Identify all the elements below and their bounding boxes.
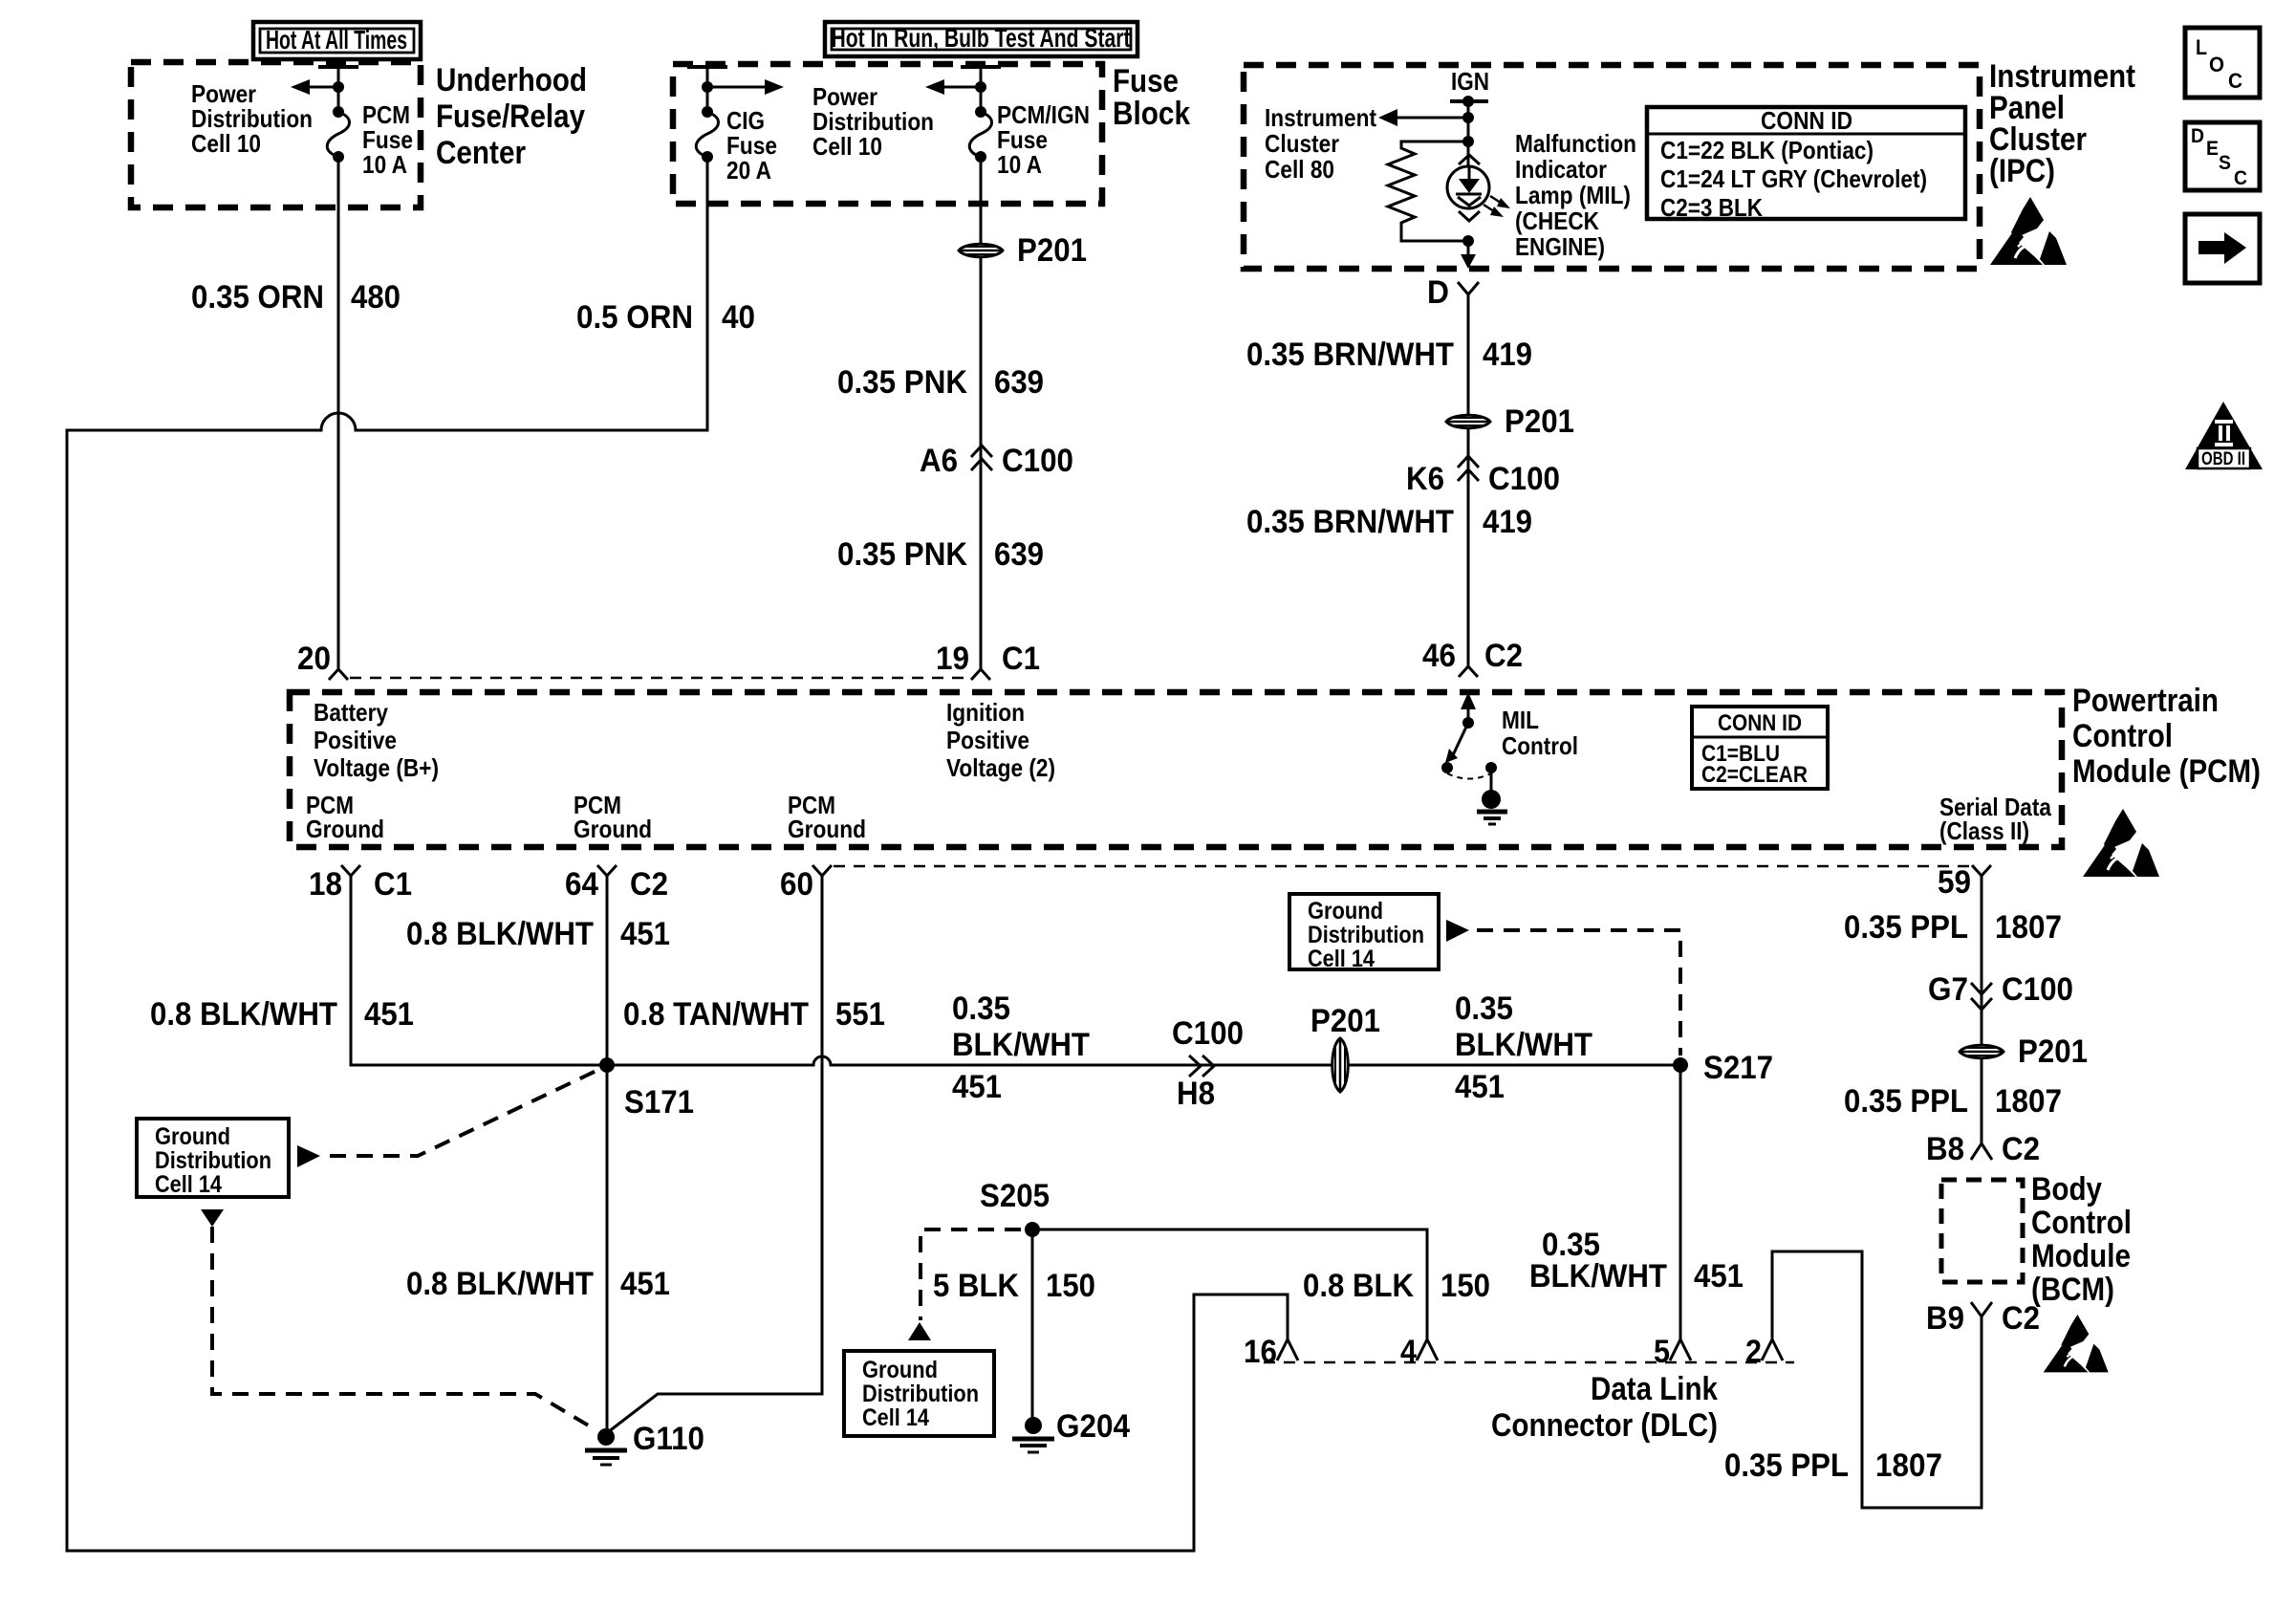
svg-text:H8: H8	[1177, 1076, 1215, 1112]
svg-text:IGN: IGN	[1451, 67, 1489, 96]
label: 0.35 ORN 480	[191, 279, 401, 315]
node: splice S205	[1025, 1222, 1040, 1237]
label: PCM Ground (pin 60)	[788, 791, 866, 843]
CONN ID table (IPC)	[1647, 106, 1965, 222]
label: Power Distribution Cell 10 (underhood)	[191, 79, 313, 158]
ESD symbol (BCM)	[2044, 1315, 2109, 1372]
svg-text:0.5 ORN: 0.5 ORN	[576, 299, 693, 336]
wire: arrow to Instrument Cluster Cell 80	[1397, 117, 1468, 120]
svg-text:451: 451	[620, 1266, 670, 1302]
svg-text:5 BLK: 5 BLK	[933, 1268, 1019, 1304]
pin 46 (PCM C2)	[1422, 638, 1523, 677]
svg-text:Ground: Ground	[1308, 898, 1383, 925]
connector line C2 (pins 60-59, thin dashed)	[834, 865, 1970, 868]
resistor (in parallel with MIL lamp)	[1388, 141, 1468, 241]
wire: arrow to Power Distribution Cell 10 (underhood)	[310, 86, 338, 89]
svg-text:Voltage (2): Voltage (2)	[946, 753, 1055, 782]
svg-text:A6: A6	[920, 443, 958, 479]
svg-text:OBD II: OBD II	[2201, 449, 2245, 469]
svg-text:16: 16	[1244, 1334, 1277, 1370]
svg-text:C2=CLEAR: C2=CLEAR	[1701, 762, 1808, 788]
svg-text:Underhood: Underhood	[436, 62, 587, 98]
svg-text:Voltage (B+): Voltage (B+)	[314, 753, 439, 782]
label: Powertrain Control Module (PCM)	[2072, 683, 2261, 790]
wire: 0.35 BRN/WHT 419 from IPC D to PCM pin 46	[1467, 294, 1470, 666]
ESD symbol (PCM)	[2083, 809, 2159, 877]
svg-text:Control: Control	[1502, 731, 1578, 760]
svg-text:Positive: Positive	[946, 726, 1029, 754]
svg-text:Distribution: Distribution	[155, 1147, 271, 1174]
svg-text:G110: G110	[633, 1421, 704, 1457]
label: 0.35 PNK 639 (lower)	[837, 536, 1044, 573]
svg-text:K6: K6	[1406, 461, 1444, 497]
svg-text:0.35 BRN/WHT: 0.35 BRN/WHT	[1246, 504, 1454, 540]
svg-text:Module: Module	[2031, 1238, 2131, 1274]
label: Data Link Connector (DLC)	[1491, 1371, 1718, 1444]
wire: 0.35 PNK 639 from PCM/IGN fuse to PCM pin 19	[980, 157, 983, 669]
node: splice S171	[599, 1057, 615, 1073]
connector P201 (on ground run)	[1310, 1003, 1380, 1092]
svg-text:C100: C100	[2002, 971, 2073, 1008]
svg-text:MIL: MIL	[1502, 706, 1539, 734]
label: CIG Fuse 20 A	[726, 106, 777, 185]
svg-text:BLK/WHT: BLK/WHT	[952, 1027, 1090, 1063]
wire: IGN feed bar	[1450, 99, 1488, 103]
label: MIL Control	[1502, 706, 1578, 760]
svg-text:BLK/WHT: BLK/WHT	[1455, 1027, 1592, 1063]
svg-text:D: D	[2191, 125, 2204, 147]
wire: top of PCM fuse	[337, 67, 340, 112]
wire: arrow to Power Distribution Cell 10 (left pointing)	[944, 86, 981, 89]
label: 0.8 BLK 150	[1303, 1268, 1490, 1304]
svg-text:C100: C100	[1002, 443, 1073, 479]
svg-text:S217: S217	[1703, 1050, 1773, 1086]
svg-text:Ground: Ground	[155, 1123, 230, 1150]
wire: arrow down out of IPC	[1467, 241, 1470, 256]
pin 19 (PCM C1)	[936, 641, 1040, 680]
svg-text:Cluster: Cluster	[1265, 129, 1339, 158]
svg-text:C2=3 BLK: C2=3 BLK	[1660, 193, 1763, 222]
component box: Instrument Panel Cluster (IPC)	[1244, 65, 1980, 269]
label: Serial Data (Class II)	[1939, 793, 2051, 845]
node: splice S217	[1673, 1057, 1688, 1073]
svg-text:C2: C2	[630, 866, 668, 903]
label: 0.8 BLK/WHT 451 (S171 to G110)	[406, 1266, 670, 1302]
ESD symbol (IPC)	[1990, 197, 2067, 265]
svg-text:150: 150	[1046, 1268, 1095, 1304]
svg-text:1807: 1807	[1995, 1083, 2062, 1120]
svg-text:Positive: Positive	[314, 726, 397, 754]
svg-text:O: O	[2209, 53, 2224, 76]
svg-text:19: 19	[936, 641, 969, 677]
svg-text:S: S	[2219, 152, 2231, 174]
pin 20 (PCM C1)	[297, 641, 348, 680]
fuse F2: CIG Fuse element	[702, 106, 713, 118]
svg-text:Module (PCM): Module (PCM)	[2072, 753, 2261, 790]
label: PCM Ground (pin 18)	[306, 791, 384, 843]
label: 0.8 BLK/WHT 451 (pin 18 wire)	[150, 996, 414, 1033]
wire: S205 right to DLC pin 4	[1032, 1229, 1427, 1339]
svg-text:Ground: Ground	[862, 1357, 938, 1383]
svg-text:2: 2	[1745, 1334, 1762, 1370]
svg-text:L: L	[2196, 35, 2207, 59]
svg-text:B9: B9	[1926, 1300, 1964, 1337]
svg-text:Cell 10: Cell 10	[191, 129, 261, 158]
svg-text:Malfunction: Malfunction	[1515, 129, 1636, 158]
svg-text:639: 639	[994, 536, 1044, 573]
node: lamp bottom junction dot	[1462, 235, 1474, 247]
svg-text:Fuse/Relay: Fuse/Relay	[436, 98, 585, 135]
svg-text:C: C	[2234, 167, 2247, 189]
label: 0.35 PNK 639 (upper)	[837, 364, 1044, 401]
svg-text:C2: C2	[2002, 1131, 2040, 1167]
svg-text:CONN ID: CONN ID	[1718, 710, 1802, 736]
svg-text:0.35 PPL: 0.35 PPL	[1844, 1083, 1968, 1120]
svg-text:C2: C2	[2002, 1300, 2040, 1337]
MIL lamp (CHECK ENGINE)	[1447, 155, 1510, 221]
svg-text:419: 419	[1483, 504, 1532, 540]
svg-text:Hot At All Times: Hot At All Times	[266, 25, 407, 54]
svg-text:(IPC): (IPC)	[1989, 153, 2055, 189]
svg-text:Indicator: Indicator	[1515, 155, 1607, 184]
svg-text:419: 419	[1483, 337, 1532, 373]
label: Ground Distribution Cell 14 (left box)	[137, 1119, 320, 1198]
svg-text:D: D	[1427, 274, 1449, 311]
pin 2 (DLC)	[1745, 1334, 1783, 1370]
component box: Body Control Module (BCM)	[1941, 1180, 2023, 1282]
label: Ground Distribution Cell 14 (upper middle box)	[1289, 894, 1469, 972]
wire: top of CIG fuse	[706, 67, 709, 112]
icon: arrow box	[2185, 214, 2260, 283]
component box: Powertrain Control Module (PCM)	[290, 692, 2062, 847]
wire: 0.35 PPL 1807 from PCM pin 59 down to BCM B8	[1981, 876, 1983, 1143]
label: Body Control Module (BCM)	[2031, 1171, 2132, 1308]
icon: DESC box	[2185, 122, 2260, 190]
svg-text:BLK/WHT: BLK/WHT	[1529, 1258, 1667, 1295]
svg-text:Connector (DLC): Connector (DLC)	[1491, 1407, 1718, 1444]
svg-text:Center: Center	[436, 135, 526, 171]
svg-text:0.35 ORN: 0.35 ORN	[191, 279, 324, 315]
connector P201 (PNK wire)	[959, 232, 1087, 269]
pin 16 (DLC)	[1244, 1334, 1298, 1370]
svg-text:5: 5	[1654, 1334, 1670, 1370]
svg-text:Cell 14: Cell 14	[1308, 946, 1375, 972]
svg-text:Hot In Run, Bulb Test And Star: Hot In Run, Bulb Test And Start	[832, 23, 1131, 53]
label: 0.35 BRN/WHT 419 (lower)	[1246, 504, 1532, 540]
fuse F1: PCM Fuse element	[333, 106, 344, 118]
label: Fuse Block	[1113, 63, 1190, 132]
label: Malfunction Indicator Lamp (MIL) (CHECK ENGINE)	[1515, 129, 1636, 261]
svg-text:C2: C2	[1484, 638, 1523, 674]
svg-text:C100: C100	[1172, 1015, 1244, 1052]
svg-text:451: 451	[620, 916, 670, 952]
dashed leader: Ground Distribution Cell 14 down to G110	[201, 1209, 596, 1430]
label: Instrument Cluster Cell 80	[1265, 103, 1376, 184]
fuse F1: PCM Fuse 10 A (Underhood) terminal bar	[318, 65, 358, 69]
svg-text:(Class II): (Class II)	[1939, 816, 2029, 845]
svg-text:40: 40	[722, 299, 755, 336]
svg-text:0.35 PNK: 0.35 PNK	[837, 364, 967, 401]
pin 18 (PCM C1, bottom)	[309, 865, 412, 903]
label: PCM Fuse 10 A	[362, 100, 413, 179]
label: 0.35 PPL 1807 (upper)	[1844, 909, 2062, 946]
label: Battery Positive Voltage (B+)	[314, 698, 439, 782]
svg-text:0.35: 0.35	[952, 990, 1010, 1027]
svg-text:Cell 14: Cell 14	[862, 1404, 929, 1431]
svg-text:C1: C1	[374, 866, 412, 903]
connector P201 (BRN/WHT wire)	[1446, 403, 1574, 440]
pin B8 (BCM C2)	[1926, 1131, 2040, 1167]
ground G110	[585, 1421, 704, 1465]
svg-text:10 A: 10 A	[997, 150, 1042, 179]
svg-text:Control: Control	[2031, 1205, 2132, 1241]
svg-text:1807: 1807	[1875, 1447, 1942, 1484]
svg-text:64: 64	[565, 866, 598, 903]
label: PCM/IGN Fuse 10 A	[997, 100, 1090, 179]
label: Power Distribution Cell 10 (fuse block)	[812, 82, 934, 161]
svg-text:Instrument: Instrument	[1265, 103, 1376, 132]
label: Ground Distribution Cell 14 (lower box)	[844, 1322, 994, 1436]
pin 59 (PCM, bottom)	[1938, 864, 1991, 901]
label: Underhood Fuse/Relay Center	[436, 62, 587, 171]
wire: 0.5 ORN 40 from CIG fuse, left and down the page	[67, 157, 1288, 1551]
wire: 0.35 BLK/WHT 451 main ground run from S171 to S217	[607, 1056, 1680, 1065]
svg-text:C1: C1	[1002, 641, 1040, 677]
label: 0.35 PPL 1807 (lower)	[1724, 1447, 1942, 1484]
pin 60 (PCM, bottom)	[780, 865, 832, 903]
component box: Fuse Block	[673, 64, 1102, 204]
wire: IGN down to lamp	[1467, 101, 1470, 166]
label: 0.8 BLK/WHT 451 (pin 64 wire)	[406, 916, 670, 952]
svg-text:0.35 PPL: 0.35 PPL	[1724, 1447, 1849, 1484]
svg-text:S205: S205	[980, 1178, 1050, 1214]
icon: OBD II triangle	[2185, 402, 2263, 469]
dashed leader: Ground Distribution Cell 14 to S171	[330, 1069, 600, 1156]
svg-text:18: 18	[309, 866, 342, 903]
svg-text:Body: Body	[2031, 1171, 2102, 1207]
svg-text:0.8 BLK/WHT: 0.8 BLK/WHT	[150, 996, 337, 1033]
wire: 0.8 BLK/WHT 451 from pin 64 down to G110	[606, 876, 609, 1430]
svg-text:P201: P201	[1505, 403, 1574, 440]
CONN ID table (PCM)	[1692, 707, 1828, 789]
wire: 5 BLK 150 from S205 down to G204	[1031, 1229, 1034, 1419]
connector P201 (PPL wire)	[1960, 1033, 2088, 1070]
banner: Hot At All Times	[253, 22, 421, 59]
svg-text:C1=24 LT GRY (Chevrolet): C1=24 LT GRY (Chevrolet)	[1660, 164, 1927, 193]
svg-text:C1=22 BLK (Pontiac): C1=22 BLK (Pontiac)	[1660, 136, 1874, 164]
svg-text:P201: P201	[2018, 1033, 2088, 1070]
svg-text:0.8 BLK/WHT: 0.8 BLK/WHT	[406, 916, 594, 952]
pin 4 (DLC)	[1400, 1334, 1438, 1370]
svg-text:Cell 10: Cell 10	[812, 132, 882, 161]
svg-text:0.35: 0.35	[1455, 990, 1513, 1027]
svg-text:20 A: 20 A	[726, 156, 771, 185]
svg-text:Cell 80: Cell 80	[1265, 155, 1334, 184]
svg-text:Distribution: Distribution	[862, 1381, 979, 1407]
svg-text:G204: G204	[1056, 1408, 1130, 1445]
fuse F2: CIG Fuse 20 A terminal bar	[687, 65, 727, 69]
svg-text:E: E	[2206, 138, 2219, 160]
svg-text:P201: P201	[1310, 1003, 1380, 1039]
label: 0.35 BLK/WHT 451 (S217 to DLC)	[1529, 1227, 1744, 1295]
wire: 0.8 TAN/WHT 551 from pin 60 down to G110	[608, 876, 822, 1432]
fuse F3: PCM/IGN Fuse element	[975, 106, 986, 118]
svg-text:0.35 PPL: 0.35 PPL	[1844, 909, 1968, 946]
wire: 0.35 BLK/WHT 451 from S217 down to DLC pin 5	[1679, 1065, 1682, 1339]
label: Instrument Panel Cluster (IPC)	[1989, 58, 2135, 189]
node: resistor branch dot	[1462, 136, 1474, 147]
MIL Control driver (PCM internal switch)	[1441, 692, 1507, 824]
svg-text:Ignition: Ignition	[946, 698, 1025, 727]
svg-text:451: 451	[364, 996, 414, 1033]
svg-text:Ground: Ground	[788, 815, 866, 843]
svg-text:(CHECK: (CHECK	[1515, 207, 1599, 235]
svg-text:451: 451	[952, 1069, 1002, 1105]
label: 0.35 PPL 1807 (middle)	[1844, 1083, 2062, 1120]
node: IGN junction dot	[1462, 96, 1474, 107]
node: arrow branch dot	[1462, 112, 1474, 123]
node: junction dot on CIG fuse wire (arrow branch)	[702, 81, 713, 93]
svg-text:20: 20	[297, 641, 331, 677]
label: 0.8 TAN/WHT 551	[623, 996, 885, 1033]
wire: top of PCM/IGN fuse	[980, 67, 983, 112]
svg-text:B8: B8	[1926, 1131, 1964, 1167]
icon: LOC box	[2185, 28, 2260, 98]
connector line C1 (pins 20-19, thin dashed)	[350, 677, 969, 680]
pin 5 (DLC)	[1654, 1334, 1691, 1370]
svg-text:10 A: 10 A	[362, 150, 407, 179]
dashed leader: Ground Distribution Cell 14 to S217	[1477, 930, 1680, 1055]
svg-text:0.35 PNK: 0.35 PNK	[837, 536, 967, 573]
svg-text:Battery: Battery	[314, 698, 388, 727]
svg-text:4: 4	[1400, 1334, 1417, 1370]
connector C100 pin K6	[1406, 456, 1560, 497]
connector pin D (IPC)	[1427, 274, 1479, 311]
svg-text:0.8 TAN/WHT: 0.8 TAN/WHT	[623, 996, 809, 1033]
connector C100 pin A6	[920, 443, 1073, 479]
svg-text:639: 639	[994, 364, 1044, 401]
svg-text:150: 150	[1440, 1268, 1490, 1304]
svg-text:Ground: Ground	[574, 815, 652, 843]
svg-text:480: 480	[351, 279, 401, 315]
banner: Hot In Run, Bulb Test And Start	[825, 22, 1137, 56]
svg-text:Ground: Ground	[306, 815, 384, 843]
node: junction dot on PCM/IGN fuse wire (arrow branch)	[975, 81, 986, 93]
fuse F3: PCM/IGN Fuse 10 A terminal bar	[961, 65, 1001, 69]
label: 0.5 ORN 40	[576, 299, 755, 336]
node: junction dot on PCM fuse wire (arrow branch)	[333, 81, 344, 93]
svg-text:Block: Block	[1113, 96, 1190, 132]
svg-text:CONN ID: CONN ID	[1761, 106, 1852, 135]
label: 0.35 BLK/WHT 451 (left of C100)	[952, 990, 1090, 1105]
wire: 0.35 ORN 480 from PCM fuse to PCM pin 20	[337, 157, 340, 669]
svg-text:Fuse: Fuse	[1113, 63, 1179, 99]
svg-text:Distribution: Distribution	[1308, 922, 1424, 948]
svg-text:Data Link: Data Link	[1591, 1371, 1718, 1407]
wire: 0.35 PPL 1807 from DLC pin 2 to BCM B9	[1772, 1251, 1982, 1508]
svg-text:G7: G7	[1928, 971, 1968, 1008]
ground G204	[1012, 1408, 1130, 1452]
svg-text:0.8 BLK: 0.8 BLK	[1303, 1268, 1414, 1304]
svg-text:P201: P201	[1017, 232, 1087, 269]
label: PCM Ground (pin 64)	[574, 791, 652, 843]
svg-text:Powertrain: Powertrain	[2072, 683, 2219, 719]
svg-text:1807: 1807	[1995, 909, 2062, 946]
label: Ignition Positive Voltage (2)	[946, 698, 1055, 782]
svg-text:(BCM): (BCM)	[2031, 1272, 2114, 1308]
svg-text:Control: Control	[2072, 718, 2173, 754]
svg-text:451: 451	[1694, 1258, 1744, 1295]
connector line: DLC face (thin dashed)	[1264, 1361, 1794, 1364]
svg-text:60: 60	[780, 866, 813, 903]
wire: arrow to Power Distribution Cell 10 (fuse block)	[707, 86, 765, 89]
svg-text:C100: C100	[1488, 461, 1560, 497]
component box: Underhood Fuse/Relay Center	[131, 62, 421, 207]
connector C100 pin H8 (on ground run)	[1172, 1015, 1244, 1112]
svg-text:C: C	[2228, 69, 2242, 93]
svg-text:0.8 BLK/WHT: 0.8 BLK/WHT	[406, 1266, 594, 1302]
label: 5 BLK 150	[933, 1268, 1095, 1304]
svg-text:46: 46	[1422, 638, 1456, 674]
svg-text:ENGINE): ENGINE)	[1515, 232, 1605, 261]
svg-text:451: 451	[1455, 1069, 1505, 1105]
svg-text:0.35 BRN/WHT: 0.35 BRN/WHT	[1246, 337, 1454, 373]
wire: 0.8 BLK/WHT 451 from pin 18 down and right	[351, 876, 607, 1065]
svg-text:551: 551	[835, 996, 885, 1033]
pin 64 (PCM C2, bottom)	[565, 865, 668, 903]
pin B9 (BCM C2)	[1926, 1300, 2040, 1337]
svg-text:Lamp (MIL): Lamp (MIL)	[1515, 181, 1631, 209]
svg-text:59: 59	[1938, 864, 1971, 901]
dashed leader: S205 to Ground Distribution Cell 14	[921, 1229, 1021, 1320]
label: 0.35 BLK/WHT 451 (right of P201)	[1455, 990, 1592, 1105]
connector C100 pin G7	[1928, 971, 2073, 1010]
svg-text:S171: S171	[624, 1084, 694, 1120]
svg-text:Cell 14: Cell 14	[155, 1171, 222, 1198]
label: 0.35 BRN/WHT 419 (upper)	[1246, 337, 1532, 373]
